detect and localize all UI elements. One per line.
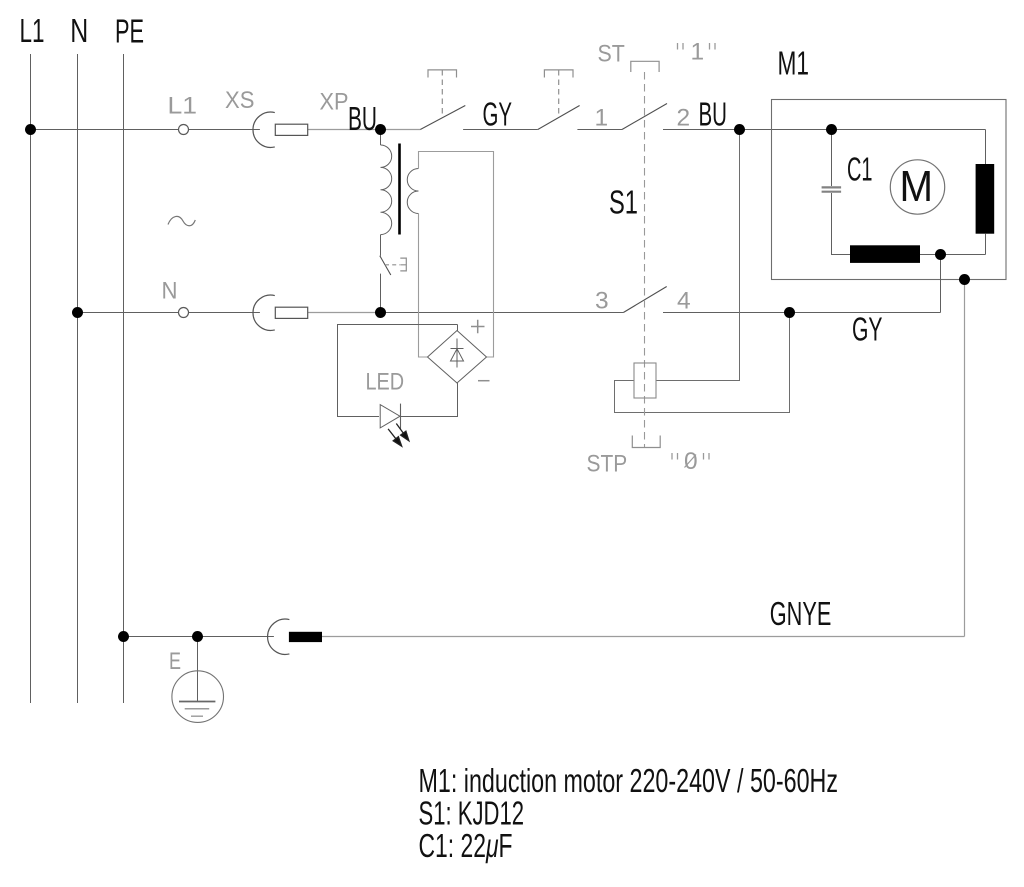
wire between GY switches <box>463 129 538 131</box>
wire XP plug to node BU <box>308 129 421 131</box>
junction dot N <box>72 307 83 318</box>
earth circle <box>172 671 224 723</box>
svg-text:BU: BU <box>348 100 377 137</box>
capacitor C1 top lead <box>831 130 833 187</box>
wire LED loop <box>338 325 458 417</box>
motor main winding (black) <box>976 164 995 234</box>
connector XP plug (top) <box>275 124 307 135</box>
svg-text:N: N <box>162 278 178 305</box>
earth lead E <box>197 637 199 702</box>
svg-text:GY: GY <box>483 96 513 133</box>
thermal cutout blade <box>380 256 391 275</box>
node PE rail <box>123 54 125 703</box>
junction dot earth tap <box>192 631 203 642</box>
thermal element link (dashed) <box>385 264 400 266</box>
wire S1 contact 4 to GY riser <box>663 312 941 314</box>
svg-text:1: 1 <box>595 105 609 132</box>
switch GY first blade <box>420 106 465 130</box>
bridge rectifier diamond <box>428 331 487 384</box>
switch GY first actuator cap <box>428 70 457 78</box>
connector plug GNYE (black) <box>289 632 322 642</box>
switch GY second actuator stem (dashed) <box>558 70 560 114</box>
wire PE frame riser <box>964 280 966 637</box>
svg-text:C1: 22μF: C1: 22μF <box>419 827 513 864</box>
transformer secondary top lead <box>419 152 494 358</box>
node L1 rail <box>30 54 32 703</box>
wire L1 terminal to connector XS <box>188 129 260 131</box>
earth bars <box>179 701 215 703</box>
bridge minus sign <box>478 380 490 382</box>
svg-text:2: 2 <box>677 105 691 132</box>
motor start winding (black) <box>850 245 920 263</box>
svg-text:M1: M1 <box>778 45 810 82</box>
wire node to S1 contact 3 <box>380 312 623 314</box>
terminal circle L1 <box>179 125 189 135</box>
svg-text:ST: ST <box>598 41 625 68</box>
junction dot relay return <box>784 307 795 318</box>
label quoted 0 (gray) <box>672 453 709 460</box>
connector plug (N wire) <box>275 307 307 318</box>
wire S1 contact 2 to motor <box>663 129 986 131</box>
wire L1 phase horizontal left <box>31 129 179 131</box>
transformer secondary bottom lead <box>419 214 428 358</box>
svg-text:L1: L1 <box>168 93 198 120</box>
switch GY first actuator stem (dashed) <box>441 70 443 114</box>
label quoted 1 (gray) <box>678 43 716 50</box>
capacitor C1 plates <box>822 187 842 191</box>
thermal element symbol <box>400 258 406 271</box>
bridge top vertex lead <box>457 325 459 331</box>
switch GY second blade <box>538 106 580 130</box>
wire N terminal to connector <box>188 312 260 314</box>
wire GY switch to S1 contact 1 <box>577 129 622 131</box>
svg-text:N: N <box>70 12 88 49</box>
wire start winding to node <box>920 254 986 256</box>
junction dot transformer return <box>375 307 386 318</box>
wire winding node drop <box>940 255 942 313</box>
connector socket arc (N wire) <box>253 295 275 330</box>
LED cathode bar <box>400 404 402 429</box>
svg-text:L1: L1 <box>20 12 45 49</box>
svg-text:S1: S1 <box>609 184 638 221</box>
capacitor C1 bottom lead <box>832 193 851 255</box>
wire GNYE to motor frame <box>322 636 965 638</box>
relay coil S1 <box>634 363 656 398</box>
svg-text:3: 3 <box>595 288 609 315</box>
svg-text:BU: BU <box>699 96 728 133</box>
connector XS/XP socket arc (top) <box>253 112 275 147</box>
ac source tilde symbol <box>168 216 195 225</box>
wire LED cathode to bridge minus <box>401 383 458 417</box>
wire GNYE from PE <box>124 636 274 638</box>
LED triangle <box>380 405 400 428</box>
junction dot winding node <box>935 249 946 260</box>
junction dot BU node 2 <box>734 124 745 135</box>
switch GY second actuator cap <box>544 70 573 78</box>
motor circle M <box>890 160 944 214</box>
transformer core <box>398 144 401 235</box>
thermal cutout lead <box>380 235 382 256</box>
wire BU drop to relay coil <box>656 130 740 381</box>
svg-text:E: E <box>169 648 181 675</box>
thermal cutout lower lead <box>380 274 382 313</box>
bridge plus sign <box>471 320 485 334</box>
switch S1 contact 3-4 blade <box>623 287 666 313</box>
junction dot L1 <box>25 124 36 135</box>
motor main winding bottom lead <box>985 234 987 255</box>
svg-text:4: 4 <box>677 288 691 315</box>
motor box M1 <box>772 100 1007 280</box>
connector socket arc (GNYE) <box>268 619 290 654</box>
ST start button bracket <box>631 61 659 72</box>
wire N plug to transformer node <box>308 312 380 314</box>
svg-text:LED: LED <box>366 369 405 396</box>
svg-text:1: 1 <box>691 39 705 66</box>
transformer primary lead top <box>380 130 382 146</box>
node N rail <box>77 54 79 703</box>
junction dot C1 tap <box>826 124 837 135</box>
STP stop button bracket <box>632 436 660 448</box>
svg-text:GY: GY <box>852 311 883 348</box>
motor main winding lead <box>985 130 987 165</box>
switch S1 linkage (dashed) <box>644 72 646 447</box>
transformer primary winding <box>381 145 392 235</box>
svg-text:0: 0 <box>684 448 698 475</box>
LED emission arrow 1 <box>396 424 409 441</box>
svg-text:XS: XS <box>225 87 254 114</box>
svg-text:S1: KJD12: S1: KJD12 <box>419 795 525 832</box>
switch S1 contact 1-2 blade <box>622 104 667 130</box>
wire GY riser to motor winding node <box>940 255 942 313</box>
svg-text:C1: C1 <box>847 151 873 188</box>
wire relay coil left link <box>615 313 790 413</box>
svg-text:GNYE: GNYE <box>770 595 832 632</box>
svg-text:M1: induction motor 220-240V /: M1: induction motor 220-240V / 50-60Hz <box>419 762 839 799</box>
LED emission arrow 2 <box>388 429 402 446</box>
junction dot XP/BU node <box>375 124 386 135</box>
bridge inner diode <box>451 339 464 368</box>
svg-text:XP: XP <box>320 89 349 116</box>
terminal circle N <box>179 308 189 318</box>
junction dot motor frame <box>959 274 970 285</box>
junction dot PE <box>118 631 129 642</box>
wire N horizontal left <box>78 312 179 314</box>
svg-text:M: M <box>900 162 934 211</box>
svg-text:PE: PE <box>115 13 144 50</box>
svg-text:STP: STP <box>587 451 628 478</box>
transformer secondary winding <box>407 169 418 214</box>
